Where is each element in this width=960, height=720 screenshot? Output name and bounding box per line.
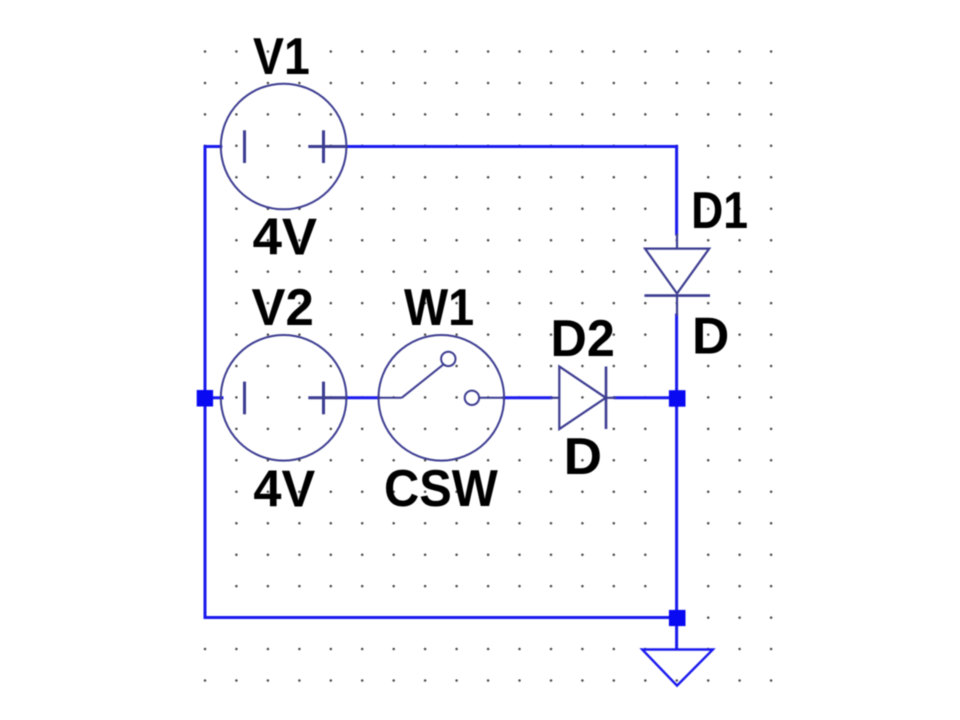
svg-text:W1: W1 [404, 278, 474, 336]
svg-text:V1: V1 [253, 27, 310, 85]
svg-text:D: D [564, 427, 602, 485]
svg-text:D2: D2 [551, 309, 615, 367]
svg-text:4V: 4V [253, 459, 315, 517]
svg-text:V2: V2 [252, 278, 314, 336]
svg-text:D1: D1 [691, 181, 748, 239]
svg-text:CSW: CSW [384, 459, 498, 517]
svg-text:D: D [692, 306, 729, 364]
svg-text:4V: 4V [253, 208, 318, 266]
